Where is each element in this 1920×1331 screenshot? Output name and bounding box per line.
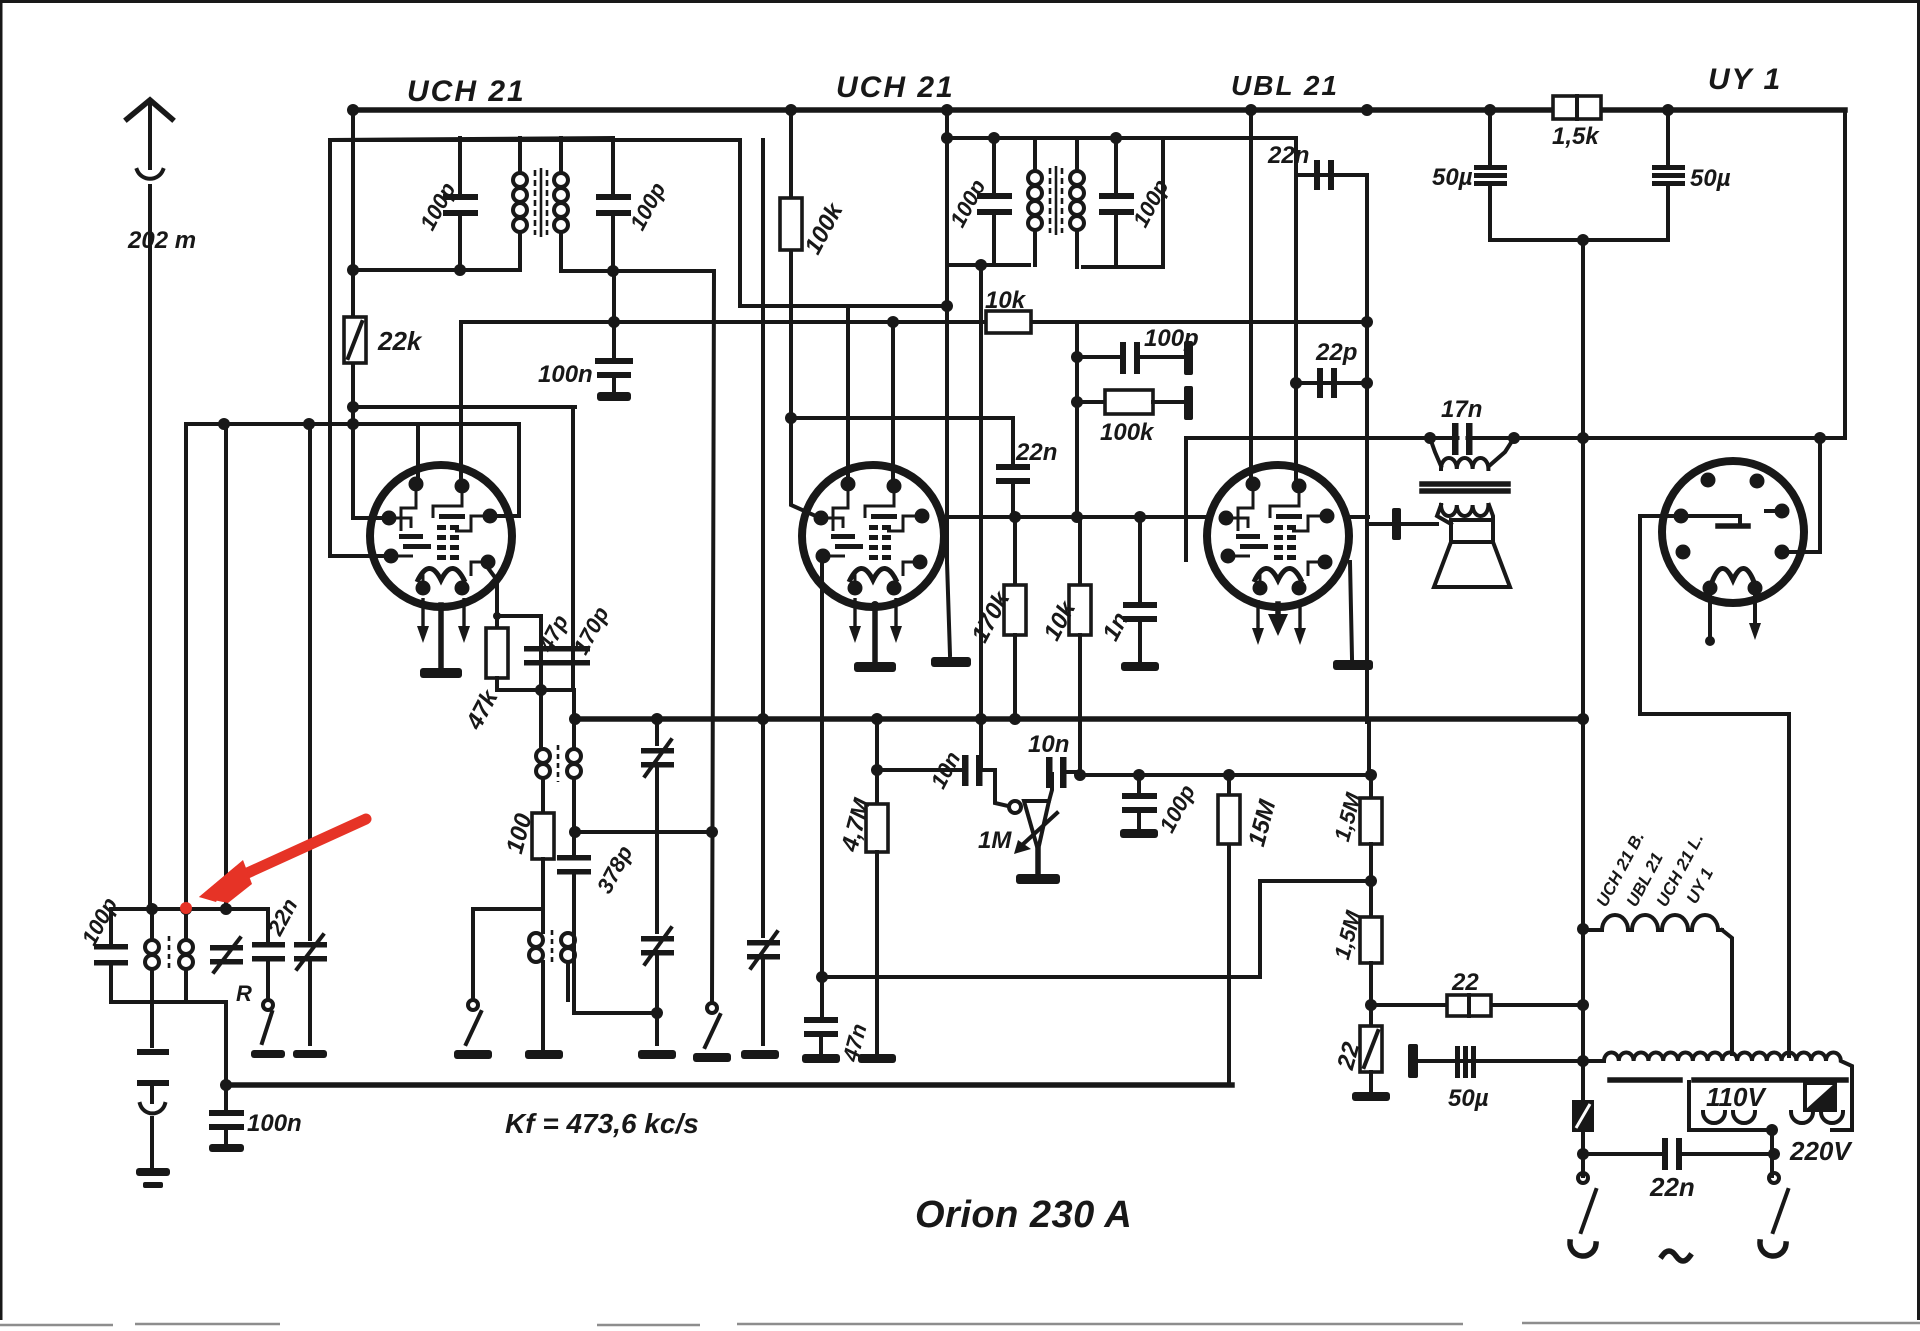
grid stopper wire to 22n bbox=[791, 416, 1013, 420]
svg-text:1M: 1M bbox=[978, 827, 1012, 854]
wire: x791 into tube2 grid pin bbox=[791, 418, 818, 517]
ground tube3 right pin bbox=[1350, 562, 1352, 658]
wire x714 down from IF1 to band switch bbox=[712, 271, 714, 1003]
ground osc coil bbox=[525, 1050, 563, 1059]
IF1 secondary coil bbox=[554, 138, 568, 271]
svg-text:22n: 22n bbox=[1649, 1172, 1695, 1202]
heater lead arrows tube3 bbox=[1252, 600, 1264, 645]
IF2 bottom right rail bbox=[1083, 265, 1163, 269]
svg-text:Orion 230 A: Orion 230 A bbox=[915, 1194, 1132, 1236]
svg-text:50µ: 50µ bbox=[1448, 1085, 1489, 1112]
speaker cone bbox=[1434, 542, 1510, 587]
capacitor 170p bbox=[571, 600, 575, 690]
svg-text:22n: 22n bbox=[1015, 439, 1057, 466]
resistor 1,5M lower bbox=[1360, 917, 1382, 963]
red arrow bbox=[232, 819, 366, 880]
wire: UY1 right pin to x1820 bbox=[1782, 438, 1820, 552]
wire: vertical x330 down to tube1 lower-left pin bbox=[330, 140, 391, 556]
svg-text:17n: 17n bbox=[1441, 396, 1482, 423]
wire: x573 drop to 170p bbox=[571, 407, 575, 600]
capacitor 22n band switch bbox=[252, 942, 285, 948]
antenna earth: blocking cap and ground bbox=[137, 1049, 169, 1055]
red dot bbox=[180, 902, 192, 914]
capacitor 100n decoupling bbox=[209, 1110, 244, 1116]
capacitor 47p bbox=[539, 628, 543, 690]
wire: vertical x791 screen feed bbox=[789, 110, 793, 418]
tube U4 UY1 bbox=[1662, 461, 1804, 603]
resistor 1,5M upper bbox=[1369, 775, 1373, 798]
svg-text:202 m: 202 m bbox=[127, 227, 196, 254]
capacitor 50u right bbox=[1666, 110, 1670, 165]
110V tap frame bbox=[1689, 1082, 1712, 1130]
wire: speaker B+ line y438 bbox=[1186, 436, 1845, 440]
wire: grid line B y=322 right part bbox=[1031, 320, 1367, 324]
svg-text:UY 1: UY 1 bbox=[1708, 63, 1782, 96]
wire: top HT bus y=110 bbox=[353, 107, 1845, 113]
capacitor 50u heater bbox=[1455, 1046, 1476, 1078]
tap bottom rail bbox=[1712, 1128, 1772, 1132]
wire: x892 drop to tube2 top-right pin bbox=[891, 322, 895, 486]
terminal bar bbox=[1408, 1044, 1418, 1078]
switch S2 bbox=[707, 1003, 717, 1013]
wire: x418 tube1 top-left pin stub bbox=[416, 424, 420, 484]
svg-text:110V: 110V bbox=[1706, 1082, 1767, 1112]
switch contact bbox=[263, 1000, 273, 1010]
oscillator coil L2 bbox=[529, 859, 575, 1048]
capacitor 100p coupling horizontal bbox=[1077, 355, 1120, 359]
wire: riser to 15M bbox=[1227, 844, 1231, 1085]
capacitor 1n bbox=[1138, 517, 1142, 602]
filter rail y240 bbox=[1490, 238, 1668, 242]
wire: 22p link y383 bbox=[1296, 381, 1367, 385]
wire: x848 drop to tube2 top-left pin bbox=[846, 306, 850, 484]
svg-text:UBL 21: UBL 21 bbox=[1231, 70, 1339, 101]
resistor 47k bbox=[488, 568, 497, 628]
ground tube2 g3 bbox=[947, 562, 950, 655]
UY1 heater arc bbox=[1712, 568, 1754, 582]
wire: vertical x353 from bus1 down to tube1 upper-left pin bbox=[353, 110, 389, 518]
svg-text:Kf = 473,6 kc/s: Kf = 473,6 kc/s bbox=[505, 1108, 699, 1139]
IF1 bottom left rail y270 bbox=[353, 268, 520, 272]
wire: y424 left section bus bbox=[186, 422, 519, 426]
wire 1,5M chain to 22 resistor y1005 bbox=[1371, 1003, 1583, 1007]
link y1013 bbox=[574, 1011, 657, 1015]
transformer core bbox=[1422, 481, 1508, 487]
UY1 bottom leads bbox=[1708, 595, 1712, 638]
220V frame bbox=[1832, 1075, 1852, 1130]
capacitor 100p antenna bbox=[109, 909, 113, 944]
node y1002 rail bbox=[111, 1000, 226, 1004]
AF node rail y775 bbox=[1080, 773, 1372, 777]
svg-text:220V: 220V bbox=[1789, 1136, 1853, 1166]
resistor 10k horizontal bbox=[986, 311, 1031, 333]
svg-text:R: R bbox=[236, 981, 252, 1006]
svg-text:100n: 100n bbox=[247, 1110, 302, 1137]
UY1 anode structure bbox=[1681, 516, 1740, 524]
capacitor 100p IF1 right bbox=[611, 138, 615, 194]
heater lead arrows tube2 bbox=[849, 598, 861, 643]
IF2 core bbox=[1049, 168, 1052, 233]
svg-text:22k: 22k bbox=[377, 326, 423, 356]
svg-text:UCH 21: UCH 21 bbox=[407, 75, 526, 108]
trimmer chain x657 bbox=[655, 719, 659, 744]
IF2 primary coil bbox=[1028, 138, 1042, 265]
resistor 10k vertical bbox=[1078, 517, 1082, 585]
wire: x1251 from bus1 to tube3 top-left pin bbox=[1249, 110, 1253, 486]
resistor 100k horizontal bbox=[1077, 400, 1105, 404]
ground tube2 cathode bbox=[854, 662, 896, 672]
transformer core bars bbox=[1610, 1077, 1680, 1083]
tube U2 UCH21 bbox=[802, 465, 944, 607]
capacitor 100p AF bbox=[1137, 775, 1141, 793]
wire x226 down to ground bus bbox=[224, 1002, 228, 1085]
svg-text:1,5k: 1,5k bbox=[1552, 123, 1600, 150]
AC symbol bbox=[1662, 1251, 1690, 1261]
cathode lead tube2 bbox=[872, 605, 878, 662]
resistor 22 horizontal bbox=[1447, 995, 1491, 1016]
wire: x1369 drop to AF rail bbox=[1369, 719, 1371, 775]
capacitor 47n bbox=[820, 556, 824, 1015]
wire: right vertical x1845 bbox=[1843, 110, 1847, 438]
capacitor 100n to ground bbox=[612, 322, 616, 358]
capacitor 378p bbox=[572, 832, 576, 855]
wire: x226 drop bbox=[224, 424, 228, 909]
heater supply rail y1061 bbox=[1414, 1059, 1583, 1063]
output transformer secondary bbox=[1441, 505, 1488, 516]
svg-text:22n: 22n bbox=[1267, 142, 1309, 169]
wire: x1583 main vertical bbox=[1581, 240, 1585, 1176]
wire: x519 drop to tube1 right pin bbox=[490, 424, 519, 516]
wire: 22n link y175 bbox=[1296, 173, 1367, 177]
svg-text:22p: 22p bbox=[1315, 339, 1357, 366]
svg-text:22: 22 bbox=[1451, 969, 1479, 996]
heater winding right lead bbox=[1722, 930, 1732, 1054]
capacitor 50u left bbox=[1488, 110, 1492, 165]
svg-text:100n: 100n bbox=[538, 361, 593, 388]
antenna coil transformer bbox=[145, 909, 193, 1046]
wire: ground bus y1085 bbox=[226, 1082, 1232, 1088]
svg-text:10k: 10k bbox=[985, 287, 1027, 314]
IF2 right frame bbox=[1161, 138, 1165, 267]
tube U1 UCH21 bbox=[370, 465, 512, 607]
wire: x186 drop to antenna tuned circuit bbox=[184, 424, 188, 909]
mains switch left bbox=[1578, 1173, 1588, 1183]
wire: y832 branch bbox=[575, 830, 712, 834]
volume pot 1M bbox=[1009, 801, 1021, 813]
wire: long anode line y719 bbox=[575, 716, 1583, 722]
capacitor 22n top detector bbox=[1314, 160, 1320, 190]
padder cap x760 bbox=[761, 140, 765, 936]
mains switch right bbox=[1769, 1173, 1779, 1183]
page border left bbox=[0, 0, 3, 1320]
wire: vertical x740 bus2 drop bbox=[740, 140, 947, 306]
wire y879 bbox=[1260, 879, 1371, 883]
wire x614 from IF1 bottom to grid line bbox=[612, 271, 616, 322]
IF2 secondary coil bbox=[1070, 138, 1084, 267]
capacitor 100p IF2 right bbox=[1114, 138, 1118, 193]
resistor 100 bbox=[532, 813, 554, 859]
switch S1 bbox=[468, 1000, 478, 1010]
resistor 15M bbox=[1227, 775, 1231, 795]
svg-text:50µ: 50µ bbox=[1432, 164, 1473, 191]
capacitor 10n AF coupling right bbox=[1049, 774, 1052, 801]
wire: AVC line y977 bbox=[821, 881, 1371, 977]
heater winding bbox=[1583, 915, 1722, 930]
fuse bbox=[1572, 1100, 1594, 1132]
heater lead arrows tube1 bbox=[417, 598, 429, 643]
capacitor 17n bbox=[1452, 423, 1459, 455]
wire x981 IF2 return down to detector bbox=[979, 265, 983, 770]
antenna bbox=[127, 100, 172, 119]
capacitor 100p IF2 left bbox=[992, 138, 996, 193]
page border right bbox=[1917, 0, 1920, 1320]
mains link y1154 with 22n bbox=[1583, 1152, 1774, 1156]
capacitor 100p IF1 left bbox=[458, 138, 462, 194]
tube U3 UBL21 bbox=[1207, 465, 1349, 607]
resistor 100k screen bbox=[780, 198, 802, 250]
trimmer capacitor tuning bbox=[210, 945, 243, 951]
wire: grid return y407 bbox=[355, 405, 575, 409]
cathode lead tube1 bbox=[438, 605, 444, 668]
wire: bus2 y=140 from x330 bbox=[330, 138, 740, 142]
IF1 core bbox=[534, 170, 537, 235]
wire: UY1 cathode loop bbox=[1640, 516, 1789, 1056]
capacitor 22p bbox=[1317, 368, 1323, 398]
wire: tube2 screen y517 row bbox=[944, 515, 1206, 519]
wire: x1186 corner down to tube3 shield bbox=[1184, 438, 1188, 560]
page border top bbox=[0, 0, 1920, 3]
mains transformer primary winding bbox=[1583, 1053, 1852, 1076]
speaker magnet bbox=[1451, 520, 1493, 542]
capacitor 22n tube2 grid bbox=[1011, 418, 1015, 464]
ground tube1 cathode bbox=[420, 668, 462, 678]
vertical x1077 bbox=[1075, 322, 1079, 517]
wire y909 to band switch 1 bbox=[473, 907, 543, 911]
resistor 22 vertical with slash bbox=[1369, 1005, 1373, 1026]
capacitor 10n AF coupling left bbox=[877, 768, 962, 772]
IF1 bottom right rail y271 bbox=[561, 269, 714, 273]
wire: x1296 detector line to tube3 top-right pin bbox=[1294, 138, 1298, 486]
speaker terminal bbox=[1392, 508, 1401, 540]
wire: vertical x947 bbox=[945, 110, 949, 562]
wire: grid line B y=322 bbox=[461, 320, 986, 324]
cathode arrow lead tube3 bbox=[1275, 604, 1281, 618]
scan artifact strip bottom bbox=[0, 1323, 1920, 1325]
IF1 top rail y138 bbox=[330, 138, 613, 140]
wire: IF3 top rail y138 bbox=[947, 136, 1296, 140]
resistor 4,7M bbox=[875, 719, 879, 804]
svg-text:10n: 10n bbox=[1028, 731, 1069, 758]
trimmer capacitor at x310 bbox=[294, 942, 327, 948]
resistor 170k bbox=[1013, 517, 1017, 585]
svg-text:100k: 100k bbox=[1100, 419, 1155, 446]
wire: x310 drop bbox=[308, 424, 312, 939]
resistor 22k with slash bbox=[344, 317, 366, 363]
svg-text:50µ: 50µ bbox=[1690, 165, 1731, 192]
IF1 primary coil bbox=[513, 138, 527, 270]
svg-text:UCH 21: UCH 21 bbox=[836, 71, 955, 104]
110V tap hooks bbox=[1703, 1112, 1725, 1123]
resistor 1,5k bbox=[1553, 96, 1601, 119]
wire: tube3 plate stub to x1368 bbox=[1348, 515, 1368, 519]
voltage selector flag bbox=[1805, 1083, 1835, 1110]
node y909 rail bbox=[113, 907, 268, 911]
output transformer primary bbox=[1430, 438, 1441, 466]
svg-text:100p: 100p bbox=[1144, 325, 1199, 352]
oscillator coil L1 bbox=[536, 690, 581, 832]
wire: x1367 vertical bbox=[1365, 175, 1369, 722]
IF2 bottom left rail bbox=[947, 263, 1029, 267]
wire: x461 drop to tube1 top-right pin bbox=[459, 322, 463, 486]
